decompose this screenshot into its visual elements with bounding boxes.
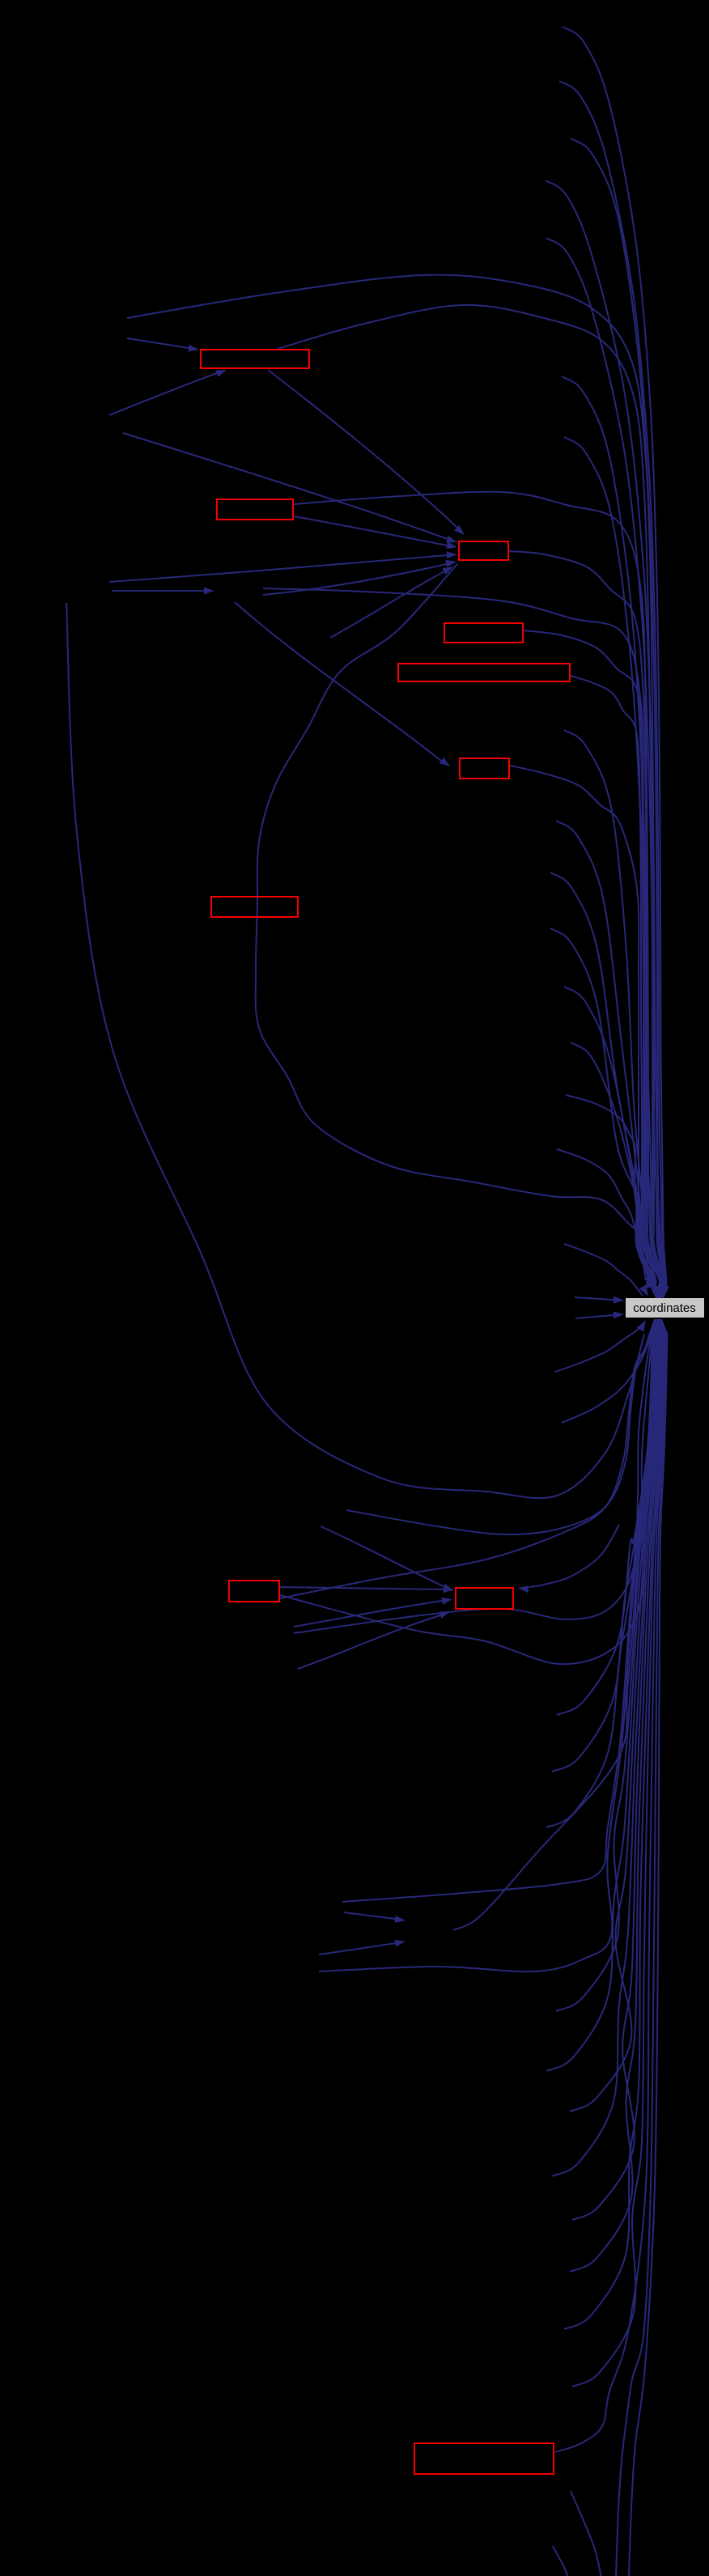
node5 (red box) [398,664,570,681]
edge file12->coordinates [550,872,652,1288]
edge file42->node1 [127,338,189,348]
arrowhead bottom-left diag [637,1320,646,1332]
edge file10->coordinates [564,730,656,1288]
edge file04->coordinates [546,180,664,1288]
arrowhead f45->box3 [447,551,457,558]
node2 (red box) [217,499,293,520]
arrowhead into box1 left [189,345,200,352]
arrowhead into box6 [439,758,450,766]
arrowhead f52->box9right [518,1585,529,1593]
edge file53->file54 [344,1912,396,1919]
edge file35->coordinates [552,1334,660,2176]
arrowhead into invisible node [204,588,214,595]
arrowhead bundle bottom [648,1319,669,1335]
arrowhead top-left diag [639,1284,648,1296]
edge file39->coordinates [572,1334,664,2387]
node1 (red box) [201,350,309,368]
edge file09->node6 [235,602,441,761]
edge file14->coordinates [564,987,650,1288]
edge node3->coordinates [509,551,661,1288]
edge file01->coordinates [563,27,666,1288]
edge file36->coordinates [572,1334,660,2220]
arrowhead left2 [613,1311,624,1318]
edge file24->coordinates [346,1335,650,1534]
edge file28->coordinates [546,1334,654,1827]
edge file27->coordinates [552,1334,653,1772]
edge node3b->coordinates [256,564,655,1285]
edge trunk-cut2 [629,1333,667,2576]
edge file18->coordinates [564,1244,643,1296]
edge node8->coordinates [280,1335,649,1598]
arrowhead f47->box3corner [442,567,453,575]
edge file20->coordinates [575,1315,613,1318]
edge file41->down [553,2546,568,2576]
edge file23->coordinates [66,603,644,1498]
arrowhead left1 [613,1296,624,1304]
edge file08->coordinates [564,437,662,1288]
edge file46->node3 [263,564,447,595]
node7 (red box) [211,897,298,917]
arrowhead box2->box3 [446,541,457,549]
svg-text:coordinates: coordinates [633,1301,696,1315]
edge node8b->coordinates [280,1335,652,1664]
edge file06->coordinates [127,275,664,1288]
edge file55->file54 [319,1943,396,1954]
edge file26->coordinates [557,1334,652,1715]
edge file51->node9 [298,1615,440,1669]
edge file49->node9 [321,1526,444,1586]
edge file40->down [571,2491,601,2576]
edge node2->coordinates [294,492,661,1288]
edge file34->coordinates [570,1334,658,2111]
edge file38->coordinates [564,1334,663,2329]
arrowhead box8->box9 [444,1585,454,1593]
edge file09->coordinates [263,588,660,1288]
edge file45->node3 [109,555,448,582]
edge file21->coordinates [555,1322,645,1372]
edge node6->coordinates [510,766,655,1288]
arrowhead bundle top [650,1286,669,1298]
edge file47->node3 [330,571,444,638]
edge file25->coordinates [294,1335,652,1633]
edge file30->coordinates [319,1334,655,1971]
edge node2->node3 [294,516,448,545]
arrowhead into box1 bottom [215,370,227,377]
edge file52->node9 [529,1525,619,1587]
edge file02->coordinates [559,81,665,1288]
edge file44->node3 [123,433,448,539]
node9 (red box) [456,1588,513,1609]
node4 (red box) [444,623,523,643]
edge file11->coordinates [556,821,654,1288]
edge node4->coordinates [524,630,660,1288]
arrowhead f44->box3 [446,536,457,543]
arrowhead f50->box9 [441,1598,452,1605]
edge node1->coordinates [278,305,663,1288]
arrowhead f51->box9 [439,1611,450,1619]
edge file16->coordinates [566,1095,647,1288]
edge file32->coordinates [556,1334,656,2011]
edge file33->coordinates [546,1334,657,2071]
edge file22->coordinates [562,1335,651,1423]
edge node5->coordinates [571,676,660,1288]
arrowhead box1->box3 [454,525,465,535]
edge file43->node1 [109,373,217,415]
edge file48->file09 [112,590,204,592]
edge file37->coordinates [570,1334,661,2272]
arrowhead f46->box3 [445,560,456,567]
node6 (red box) [460,758,509,779]
arrowhead f53 [395,1916,406,1923]
edge file05->coordinates [546,238,664,1288]
edge node10->coordinates [555,1333,664,2452]
edge node8->node9 [280,1587,444,1589]
node8 (red box) [229,1581,279,1602]
edge file07->coordinates [562,376,662,1288]
edge file03->coordinates [571,138,664,1288]
node3 (red box) [459,541,508,560]
edge file50->node9 [294,1601,442,1627]
coordinates node [626,1298,704,1318]
edge file19->coordinates [575,1297,613,1300]
edge file29->coordinates [342,1334,654,1902]
edge file15->coordinates [571,1042,649,1288]
edge trunk-cut1 [616,1333,666,2576]
edge file31->coordinates [453,1334,656,1930]
node10 (red box) [414,2443,554,2474]
arrowhead f55 [395,1940,406,1947]
edge node1->node3 [268,370,457,528]
edge file17->coordinates [557,1149,646,1280]
arrowhead f49->box9 [442,1584,453,1591]
edge file13->coordinates [550,928,652,1288]
